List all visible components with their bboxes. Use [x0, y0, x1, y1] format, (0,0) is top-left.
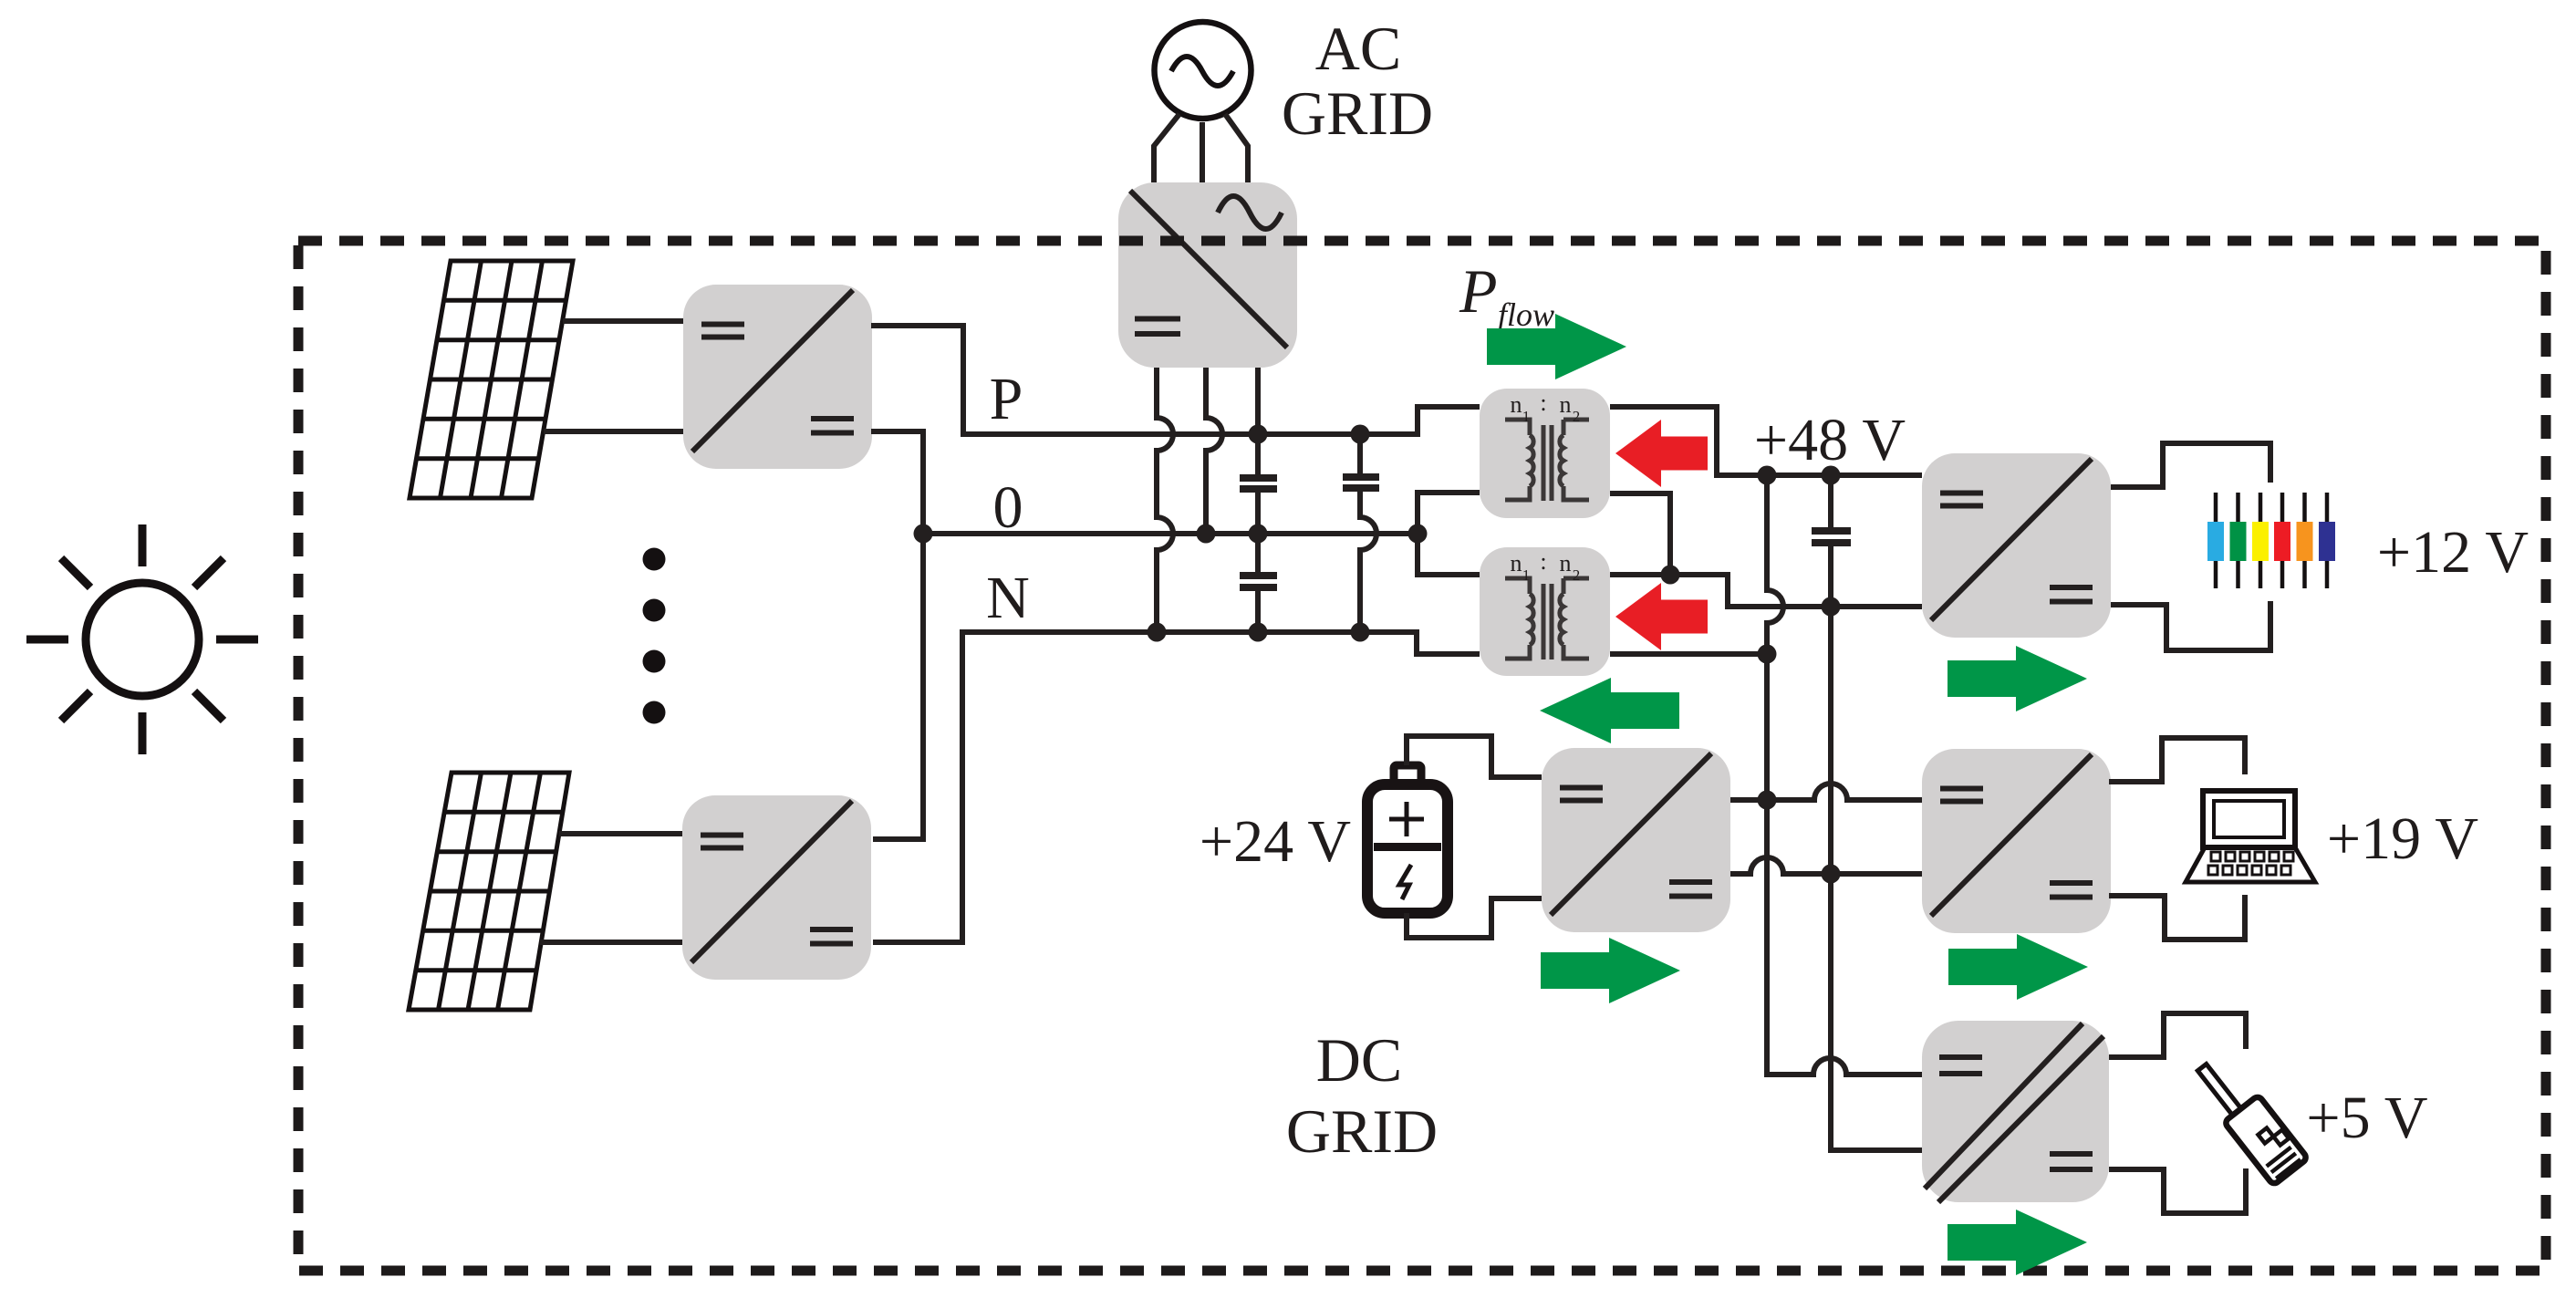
svg-text:N: N — [986, 565, 1030, 631]
vertical rail +48V down to +5V converter (hops return bus, hops cap rail) — [1767, 475, 1922, 1075]
dashed system boundary border — [298, 241, 2546, 1271]
junction on 0 bus at PV string riser — [914, 524, 933, 544]
svg-text:2: 2 — [1573, 408, 1581, 425]
svg-text:2: 2 — [1573, 566, 1581, 584]
svg-text:+12 V: +12 V — [2377, 519, 2529, 586]
bidirectional battery DC/DC converter — [1542, 748, 1730, 932]
junction on +48V bus at rail A — [1758, 466, 1777, 485]
transformer T1 bottom input wire — [1418, 493, 1480, 534]
wire PV2 to converter (top) — [559, 831, 682, 836]
N bus from PV2 bottom output to transformer T2 — [873, 632, 1480, 942]
svg-text:+19 V: +19 V — [2327, 805, 2478, 872]
capacitor C3 (P-N, hops 0) — [1343, 434, 1379, 632]
handheld radio load icon — [2189, 1051, 2308, 1186]
junction T2 bottom output to rail A — [1758, 645, 1777, 664]
bidirectional DC/DC converter +5V load — [1922, 1021, 2109, 1202]
junction T1 bottom output to T2 top output — [1661, 566, 1680, 585]
junction on N bus at capacitor C2 — [1249, 623, 1268, 642]
sun — [26, 524, 258, 754]
wire AC/DC to N bus (hops P and 0) — [1157, 368, 1173, 632]
svg-text:0: 0 — [993, 474, 1023, 541]
wire T2 bottom output — [1610, 651, 1767, 657]
junction battery converter bottom output to rail B — [1822, 865, 1841, 884]
+12V load loop top — [2111, 443, 2270, 487]
AC grid source circle — [1155, 22, 1252, 119]
wire T2 top output to return bus — [1610, 575, 1922, 607]
junction on N bus at capacitor C3 — [1351, 623, 1370, 642]
svg-text::: : — [1540, 548, 1546, 575]
+12V load loop bottom — [2111, 601, 2270, 650]
svg-text:n: n — [1511, 550, 1522, 576]
svg-text:DC: DC — [1316, 1025, 1402, 1095]
DC/DC converter PV1 — [683, 285, 872, 469]
svg-text:GRID: GRID — [1282, 78, 1433, 148]
green arrow power flow right (top) — [1487, 314, 1626, 379]
svg-text:GRID: GRID — [1286, 1096, 1438, 1166]
wire T1 bottom output down — [1610, 493, 1670, 575]
svg-text:+24 V: +24 V — [1200, 808, 1351, 875]
solar panel PV2 — [409, 773, 569, 1010]
+5V load loop bottom — [2109, 1168, 2246, 1213]
svg-text:1: 1 — [1522, 566, 1531, 584]
isolation transformer T2 — [1480, 547, 1610, 676]
wire conv PV1 bottom to 0 bus and down to PV2 top output — [871, 431, 923, 839]
svg-text::: : — [1540, 389, 1546, 416]
wire PV2 to converter (bottom) — [540, 940, 682, 945]
red arrow into T2 — [1615, 583, 1708, 650]
wire PV1 to converter (bottom) — [544, 429, 683, 434]
isolation transformer T1 — [1480, 389, 1610, 518]
battery (+24V) — [1367, 765, 1448, 913]
capacitor C2 (0-N) — [1240, 534, 1277, 632]
svg-text:n: n — [1511, 391, 1522, 418]
LED string load — [2207, 493, 2335, 588]
solar panel PV1 — [410, 261, 573, 498]
battery wire bottom — [1407, 898, 1542, 938]
green arrow to +12V load — [1948, 646, 2087, 711]
green arrow to +19V load — [1948, 934, 2088, 1000]
svg-text:P: P — [990, 366, 1023, 432]
junction on +48V bus at capacitor C4 — [1822, 466, 1841, 485]
AC/DC grid-tie converter — [1118, 182, 1297, 368]
junction on 0 bus at capacitor C1/C2 — [1249, 524, 1268, 544]
wire AC/DC to P bus — [1255, 368, 1261, 434]
svg-text:+5 V: +5 V — [2306, 1085, 2427, 1151]
svg-text:AC: AC — [1315, 14, 1401, 83]
battery wire top — [1407, 736, 1542, 777]
ellipsis dots between PV strings — [643, 548, 666, 724]
capacitor C4 (+48V bus) — [1812, 475, 1922, 1150]
DC/DC converter PV2 — [682, 795, 871, 980]
DC/DC converter +12V load — [1922, 453, 2111, 638]
svg-text:n: n — [1560, 550, 1572, 576]
laptop load icon — [2186, 791, 2315, 882]
DC/DC converter +19V load — [1922, 749, 2111, 933]
svg-text:P: P — [1459, 256, 1498, 326]
junction on 0 bus at AC neutral wire — [1197, 524, 1216, 544]
+19V load loop top — [2109, 738, 2245, 782]
svg-text:+48 V: +48 V — [1754, 407, 1906, 473]
green arrow power flow left (to battery section) — [1540, 678, 1679, 743]
junction on 0 bus at transformer riser — [1408, 524, 1428, 544]
junction on return bus at capacitor C4 — [1822, 597, 1841, 617]
wire T1 top output to +48V bus — [1610, 407, 1922, 475]
P bus with riser to transformer T1 — [871, 326, 1480, 434]
wire battery converter bottom to return rail / +19V converter bottom (hops +48 rail) — [1730, 857, 1922, 874]
red arrow into T1 — [1615, 420, 1708, 487]
wire AC/DC to 0 bus (hops P) — [1206, 368, 1222, 534]
wire battery converter to +48 rail / +19V converter top (hops cap rail) — [1730, 784, 1922, 800]
0 bus with riser to transformer T2 — [923, 534, 1480, 575]
green arrow to +5V load — [1948, 1210, 2087, 1275]
+19V load loop bottom — [2109, 895, 2245, 940]
junction on P bus at AC phase wire — [1249, 425, 1268, 444]
wire PV1 to converter (top) — [563, 318, 683, 324]
capacitor C1 (P-0) — [1240, 434, 1277, 534]
green arrow power flow right (battery discharge) — [1541, 938, 1680, 1003]
junction on P bus at capacitor C3 — [1351, 425, 1370, 444]
junction battery converter top output to rail A — [1758, 791, 1777, 810]
svg-text:flow: flow — [1498, 296, 1554, 333]
wires AC source to AC/DC converter — [1154, 114, 1248, 182]
junction on N bus at AC phase wire — [1148, 623, 1167, 642]
svg-text:1: 1 — [1522, 408, 1531, 425]
+5V load loop top — [2109, 1013, 2246, 1057]
svg-text:n: n — [1560, 391, 1572, 418]
